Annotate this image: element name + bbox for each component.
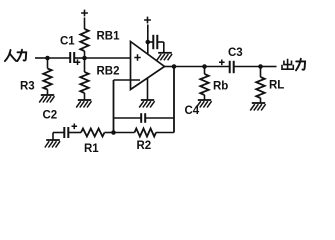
wire: inverting node vertical xyxy=(113,80,115,133)
ground (Rb) xyxy=(196,100,211,108)
svg-text:Rb: Rb xyxy=(213,81,228,93)
decoupling capacitor at op-amp supply xyxy=(153,35,157,49)
wire: feedback cap branch right xyxy=(145,117,174,119)
svg-text:R3: R3 xyxy=(20,81,35,93)
ground (RB2) xyxy=(76,100,91,108)
wire: + supply down to op-amp top xyxy=(147,25,149,55)
svg-text:RB2: RB2 xyxy=(97,66,120,78)
wire: op-amp output xyxy=(165,66,175,68)
wire: node A down to R3 xyxy=(47,58,49,69)
supply + above RB1 xyxy=(81,10,88,17)
wire: node F down to RL xyxy=(260,67,262,78)
wire: RL to ground xyxy=(260,98,262,103)
wire: C2 to R1 xyxy=(68,132,81,134)
wire: ground stub up to C2 row xyxy=(52,133,54,141)
ground (R3) xyxy=(39,95,54,103)
output terminal label 出力 xyxy=(282,59,305,71)
node A (input junction) xyxy=(45,56,50,61)
wire: output run to C3 xyxy=(174,66,230,68)
wire: RB1 to node B xyxy=(84,51,86,58)
capacitor C2 (polarized, series to ground) xyxy=(64,127,68,138)
wire: op-amp V- pin down xyxy=(147,78,149,100)
wire: node D to R2 xyxy=(114,132,135,134)
wire: RB2 to ground xyxy=(84,93,86,100)
wire: node A to C1 xyxy=(48,57,71,59)
node B (bias junction) xyxy=(82,56,87,61)
feedback capacitor (parallel with R2) xyxy=(141,113,145,123)
resistor R2 xyxy=(135,129,157,137)
wire: junction to decoupling cap xyxy=(148,41,154,43)
op-amp - input mark xyxy=(134,79,141,81)
ground (decoupling cap) xyxy=(157,53,172,61)
ground (C2) xyxy=(45,140,60,148)
wire: C3 to node F xyxy=(234,66,261,68)
node E (Rb junction) xyxy=(202,64,207,69)
supply + above op-amp xyxy=(144,17,151,24)
capacitor C3 (polarized, series output) xyxy=(219,60,225,66)
svg-text:C2: C2 xyxy=(43,110,58,122)
wire: feedback cap branch left xyxy=(114,117,142,119)
resistor RB1 xyxy=(80,29,88,51)
svg-text:RL: RL xyxy=(269,80,284,92)
wire: R2 to feedback vertical xyxy=(156,132,174,134)
resistor RB2 xyxy=(80,72,88,93)
wire: node E down to Rb xyxy=(204,67,206,75)
wire: node B to op-amp + input xyxy=(85,57,131,59)
op-amp U1 triangle xyxy=(131,42,165,90)
wire: R3 to ground xyxy=(47,90,49,96)
svg-text:R1: R1 xyxy=(84,143,99,155)
ground (RL) xyxy=(250,103,265,111)
ground (op-amp V-) xyxy=(139,100,154,108)
wire: feedback down from output xyxy=(173,67,175,133)
op-amp + input mark xyxy=(134,54,140,60)
resistor Rb xyxy=(200,74,208,95)
wire: op-amp - input xyxy=(114,79,134,81)
wire: Rb to ground xyxy=(204,95,206,100)
input terminal label 入力 xyxy=(5,50,26,61)
wire: R1 to node D xyxy=(105,132,114,134)
node D (inverting/feedback junction) xyxy=(111,130,116,135)
wire: output terminal xyxy=(261,66,277,68)
svg-text:C3: C3 xyxy=(228,47,243,59)
wire: C1 to node B xyxy=(74,57,84,59)
node: supply decoupling junction xyxy=(146,40,151,45)
svg-text:RB1: RB1 xyxy=(97,31,121,43)
node C (output/feedback junction) xyxy=(172,64,177,69)
wire: input to node A xyxy=(35,57,48,59)
resistor R3 xyxy=(43,69,51,90)
resistor R1 xyxy=(81,129,105,137)
resistor RL xyxy=(256,77,264,98)
wire: decoupling cap to ground elbow xyxy=(157,41,164,43)
svg-text:R2: R2 xyxy=(137,140,152,152)
capacitor C1 (polarized, series input) xyxy=(70,52,74,63)
node F (RL junction) xyxy=(258,64,263,69)
wire: + supply to RB1 xyxy=(84,18,86,30)
wire: node B down to RB2 xyxy=(84,58,86,72)
svg-text:C1: C1 xyxy=(60,36,75,48)
